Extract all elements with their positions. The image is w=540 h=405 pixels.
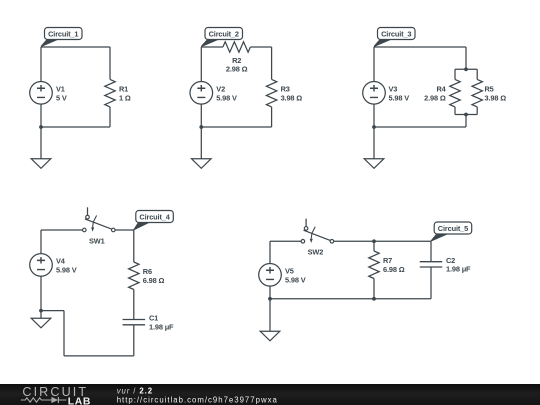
svg-text:5.98 V: 5.98 V — [389, 93, 410, 102]
svg-text:SW2: SW2 — [308, 248, 324, 257]
svg-text:Circuit_5: Circuit_5 — [438, 224, 468, 233]
svg-text:C2: C2 — [446, 256, 455, 265]
svg-text:R2: R2 — [232, 56, 241, 65]
svg-text:http://circuitlab.com/c9h7e397: http://circuitlab.com/c9h7e3977pwxa — [117, 396, 278, 405]
svg-text:Circuit_1: Circuit_1 — [48, 30, 78, 39]
svg-text:Circuit_2: Circuit_2 — [209, 30, 239, 39]
svg-text:V1: V1 — [56, 85, 65, 94]
svg-text:LAB: LAB — [68, 396, 91, 405]
svg-text:1.98 μF: 1.98 μF — [446, 265, 471, 274]
svg-text:6.98 Ω: 6.98 Ω — [383, 265, 405, 274]
svg-text:2.98 Ω: 2.98 Ω — [424, 93, 446, 102]
svg-text:3.98 Ω: 3.98 Ω — [281, 93, 303, 102]
svg-text:2.98 Ω: 2.98 Ω — [226, 65, 248, 74]
svg-text:R7: R7 — [383, 256, 392, 265]
svg-text:C1: C1 — [149, 314, 158, 323]
svg-text:R5: R5 — [485, 84, 494, 93]
svg-text:V5: V5 — [285, 267, 294, 276]
svg-text:V3: V3 — [389, 85, 398, 94]
svg-text:Circuit_4: Circuit_4 — [139, 213, 170, 222]
svg-text:6.98 Ω: 6.98 Ω — [143, 276, 165, 285]
svg-text:1.98 μF: 1.98 μF — [149, 322, 174, 331]
svg-text:3.98 Ω: 3.98 Ω — [485, 93, 507, 102]
svg-text:Circuit_3: Circuit_3 — [381, 30, 411, 39]
svg-text:5.98 V: 5.98 V — [56, 265, 77, 274]
svg-text:R4: R4 — [436, 84, 446, 93]
svg-text:V4: V4 — [56, 257, 66, 266]
svg-text:R3: R3 — [281, 84, 290, 93]
svg-text:R1: R1 — [119, 84, 128, 93]
svg-text:V2: V2 — [216, 85, 225, 94]
svg-text:1 Ω: 1 Ω — [119, 93, 131, 102]
svg-text:5.98 V: 5.98 V — [216, 93, 237, 102]
svg-text:vur / 2.2: vur / 2.2 — [117, 387, 153, 396]
svg-text:R6: R6 — [143, 267, 152, 276]
svg-text:SW1: SW1 — [89, 236, 105, 245]
svg-text:5.98 V: 5.98 V — [285, 275, 306, 284]
svg-text:5 V: 5 V — [56, 93, 67, 102]
